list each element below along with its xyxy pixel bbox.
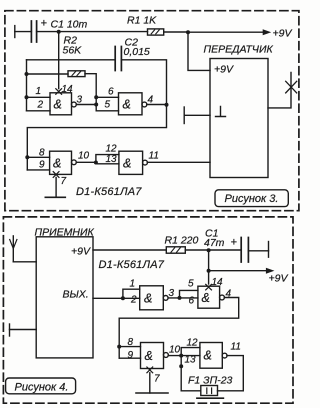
- wire out4 down to gate3 inputs: [27, 105, 166, 170]
- svg-text:5: 5: [188, 279, 194, 290]
- terminal stub lower left: [10, 324, 37, 336]
- svg-text:+9V: +9V: [269, 273, 289, 285]
- pin 7 connection cross gate C: [147, 367, 153, 373]
- svg-text:&: &: [123, 157, 131, 171]
- node dot +9V branch: [186, 30, 190, 34]
- node dot +9V branch: [207, 269, 211, 273]
- svg-text:+9V: +9V: [214, 64, 234, 76]
- svg-text:&: &: [144, 292, 152, 306]
- svg-text:C1 10m: C1 10m: [51, 19, 88, 31]
- node A top wire to C2: [27, 59, 116, 61]
- svg-text:8: 8: [39, 148, 45, 159]
- wire node A to R2: [27, 73, 69, 75]
- node dot C1/supply: [57, 30, 61, 34]
- svg-text:&: &: [54, 98, 62, 112]
- svg-text:ПЕРЕДАТЧИК: ПЕРЕДАТЧИК: [204, 44, 274, 56]
- svg-text:1: 1: [36, 86, 42, 97]
- ground: [45, 196, 65, 198]
- pin 2 wire: [27, 110, 51, 112]
- node dot out10: [179, 354, 183, 358]
- piezo F1 ЗП-23: [188, 375, 233, 399]
- ground: [136, 392, 168, 394]
- svg-text:D1-К561ЛА7: D1-К561ЛА7: [99, 259, 165, 271]
- resistor R2: [68, 71, 85, 77]
- wire out10: [76, 161, 96, 163]
- node dot pin5 tie: [178, 296, 182, 300]
- svg-text:14: 14: [62, 84, 74, 95]
- pin 9 wire: [119, 357, 140, 359]
- pin 8 wire: [27, 156, 49, 158]
- terminal X1 (left input bar): [14, 26, 16, 38]
- ground inside box: [216, 107, 226, 117]
- pin 9 wire: [27, 169, 49, 171]
- svg-text:D1-К561ЛА7: D1-К561ЛА7: [76, 186, 142, 198]
- gate U1.1 (D1.1): [50, 93, 76, 115]
- antenna cross: [286, 81, 297, 93]
- frame figure 4 dashed border: [3, 217, 293, 403]
- svg-text:R1 220: R1 220: [165, 235, 199, 247]
- gate U1.3 (D1.3): [50, 151, 77, 174]
- svg-text:10: 10: [169, 345, 181, 356]
- svg-text:11: 11: [231, 342, 241, 353]
- wire +9V arrow: [209, 268, 289, 285]
- resistor R1 1K: [127, 15, 164, 36]
- node dot pin8: [25, 155, 29, 159]
- wire out4: [147, 104, 167, 106]
- wire out11 to transmitter: [147, 161, 210, 163]
- node dot out3: [94, 103, 98, 107]
- capacitor C1 10m: [31, 18, 87, 43]
- wire C2 to gate2 output: [121, 60, 166, 105]
- pin 12 wire: [181, 348, 200, 356]
- svg-text:+9V: +9V: [71, 246, 91, 258]
- svg-text:ВЫХ.: ВЫХ.: [63, 289, 89, 301]
- pin 8 wire: [119, 346, 140, 348]
- wire node to transmitter box: [188, 32, 210, 70]
- svg-text:7: 7: [154, 374, 160, 385]
- wire C1 to terminal: [248, 250, 268, 252]
- svg-text:10: 10: [78, 151, 90, 162]
- gate U2.3: [141, 343, 169, 369]
- svg-text:+9V: +9V: [273, 28, 293, 40]
- svg-text:&: &: [202, 291, 210, 305]
- svg-text:&: &: [204, 349, 212, 363]
- svg-text:&: &: [123, 98, 131, 112]
- wire +9V arrow: [188, 28, 292, 40]
- node dot pins 12/13: [94, 161, 98, 165]
- antenna WA1: [10, 236, 17, 262]
- svg-text:9: 9: [128, 350, 134, 361]
- wire node down: [208, 250, 210, 271]
- pin 7 connection cross gate D1.3: [53, 172, 59, 178]
- svg-text:2: 2: [130, 295, 137, 306]
- pin 14 connection cross gate D1.1: [56, 89, 62, 95]
- receiver box: [36, 237, 93, 358]
- gate U1.4 (D1.4): [119, 151, 148, 174]
- svg-text:Рисунок 4.: Рисунок 4.: [15, 382, 69, 394]
- pin 6 wire: [96, 96, 118, 98]
- svg-text:7: 7: [61, 176, 67, 187]
- svg-text:1: 1: [130, 279, 136, 290]
- wire R2 to gate input node: [85, 74, 96, 111]
- svg-text:Рисунок 3.: Рисунок 3.: [225, 193, 279, 205]
- svg-text:47m: 47m: [204, 237, 225, 249]
- pin 12 wire: [96, 155, 119, 163]
- wire supply to pin 14: [58, 32, 60, 89]
- frame figure 3 dashed border: [5, 11, 299, 211]
- node dot pin1 tie: [121, 296, 125, 300]
- terminal bar right: [268, 242, 270, 258]
- wire out10 to gate D: [168, 355, 200, 357]
- capacitor C2 0,015: [115, 37, 150, 71]
- wire +9V out to R1: [93, 249, 166, 251]
- svg-text:5: 5: [105, 100, 111, 111]
- figure 4 caption box: [6, 378, 76, 394]
- transmitter box: [210, 59, 268, 178]
- node dot piezo tap: [179, 364, 183, 368]
- svg-text:9: 9: [39, 160, 45, 171]
- svg-text:8: 8: [128, 337, 134, 348]
- wire antenna to box: [13, 261, 36, 263]
- pin 1 wire: [123, 289, 140, 298]
- wire node to pin 14: [208, 271, 210, 284]
- ground wire pin7: [149, 373, 151, 393]
- node dot R2 tap: [25, 72, 29, 76]
- svg-text:0,015: 0,015: [124, 46, 150, 58]
- svg-text:6: 6: [189, 296, 195, 307]
- wire node to piezo: [181, 356, 201, 391]
- capacitor C1 47m: [204, 228, 248, 263]
- wire ВЫХ to gate: [93, 297, 140, 299]
- svg-text:2: 2: [37, 100, 44, 111]
- figure 3 caption box: [215, 190, 288, 207]
- svg-text:11: 11: [149, 151, 159, 162]
- svg-text:F1 ЗП-23: F1 ЗП-23: [188, 375, 233, 387]
- ground wire pin 7: [55, 178, 57, 198]
- pin 5 wire: [96, 110, 118, 112]
- svg-text:&: &: [53, 157, 61, 171]
- node A vertical wire: [26, 60, 28, 111]
- pin 1 wire: [27, 96, 51, 98]
- gate U1.2 (D1.2): [119, 93, 147, 115]
- terminal stub into box: [184, 107, 210, 124]
- wire R1 to node: [185, 249, 241, 251]
- svg-text:12: 12: [187, 338, 199, 349]
- wire out3 to gate B: [168, 297, 198, 299]
- node dot out4/C2: [165, 103, 169, 107]
- node dot pin6 tap: [94, 95, 98, 99]
- gate U2.4: [200, 343, 227, 369]
- node dot supply: [207, 248, 211, 252]
- svg-text:6: 6: [108, 87, 114, 98]
- wire out11 to piezo: [218, 356, 244, 391]
- wire terminal to C1: [15, 31, 32, 33]
- svg-text:12: 12: [106, 144, 118, 155]
- svg-text:+: +: [41, 18, 48, 30]
- gate U2.2: [198, 286, 225, 308]
- svg-text:13: 13: [106, 154, 118, 165]
- resistor R1 220: [165, 235, 199, 254]
- pin 13 wire: [96, 163, 119, 164]
- node dot pin1: [25, 95, 29, 99]
- wire out4 to gate C: [119, 298, 239, 359]
- wire R1 to node: [164, 31, 188, 33]
- wire C1 to R1: [37, 31, 148, 33]
- wire box to antenna: [268, 73, 291, 108]
- svg-text:56K: 56K: [63, 45, 83, 57]
- node dot pin8: [117, 345, 121, 349]
- pin 5 wire: [180, 290, 198, 298]
- pin 14 connection cross gate B: [206, 284, 212, 290]
- svg-text:13: 13: [185, 355, 197, 366]
- svg-text:+: +: [231, 237, 238, 249]
- gate U2.1: [140, 286, 168, 310]
- svg-text:R1 1K: R1 1K: [127, 15, 157, 27]
- wire out3 to gate2: [76, 104, 96, 106]
- svg-text:&: &: [145, 349, 153, 363]
